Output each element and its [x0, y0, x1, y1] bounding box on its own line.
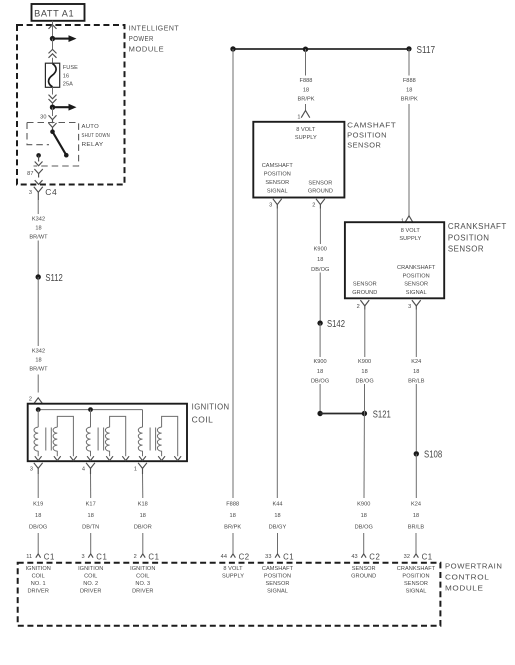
wire junction to fuse connector	[52, 39, 54, 50]
PCM pin 11 C1 - IGNITION COIL NO. 1 DRIVER	[26, 552, 55, 594]
powertrain control module dashed outline	[18, 563, 441, 626]
double chevron connector above fuse	[49, 49, 57, 57]
module label CRANKSHAFT POSITION SENSOR	[448, 221, 507, 254]
relay label AUTO SHUT DOWN RELAY	[82, 124, 111, 148]
fuse value label	[63, 65, 78, 87]
ignition coil one primary winding	[34, 410, 42, 461]
svg-text:GROUND: GROUND	[351, 574, 376, 580]
svg-text:3: 3	[29, 190, 32, 196]
wire label F888 18 BR/PK camshaft	[297, 78, 314, 102]
svg-text:NO. 3: NO. 3	[135, 581, 150, 587]
svg-text:18: 18	[303, 87, 309, 93]
wire label K24 18 BR/LB upper	[408, 359, 425, 384]
splice S108	[414, 450, 443, 461]
svg-text:S108: S108	[424, 450, 443, 461]
connector fork at IPM top edge	[49, 25, 57, 31]
svg-text:CRANKSHAFT: CRANKSHAFT	[397, 265, 436, 271]
svg-text:SUPPLY: SUPPLY	[399, 236, 421, 242]
svg-text:SENSOR: SENSOR	[265, 180, 289, 186]
svg-text:CRANKSHAFT: CRANKSHAFT	[397, 566, 436, 572]
svg-text:SIGNAL: SIGNAL	[267, 589, 288, 595]
crankshaft sensor pin 3	[408, 300, 421, 310]
svg-text:18: 18	[361, 513, 367, 519]
wire label K342 18 BR/WT upper	[29, 216, 48, 240]
svg-text:POSITION: POSITION	[264, 172, 291, 178]
ignition coil two primary winding	[86, 410, 94, 461]
svg-text:SENSOR: SENSOR	[404, 282, 428, 288]
svg-text:18: 18	[317, 257, 323, 263]
svg-text:8 VOLT: 8 VOLT	[223, 566, 243, 572]
svg-text:S142: S142	[327, 319, 345, 330]
wire label K900 18 DB/OG right	[355, 359, 373, 384]
bus junction to camshaft sensor	[303, 47, 308, 52]
ignition coil three secondary winding	[157, 416, 181, 460]
svg-text:3: 3	[30, 467, 33, 473]
wire into fuse	[52, 58, 54, 63]
svg-text:18: 18	[413, 369, 419, 375]
svg-text:18: 18	[88, 513, 94, 519]
svg-text:2: 2	[357, 304, 360, 310]
svg-text:SENSOR: SENSOR	[266, 581, 290, 587]
svg-text:GROUND: GROUND	[308, 189, 333, 195]
svg-text:BR/LB: BR/LB	[408, 378, 425, 384]
svg-text:32: 32	[404, 554, 410, 560]
svg-text:DB/OG: DB/OG	[355, 378, 373, 384]
svg-text:DB/TN: DB/TN	[82, 524, 99, 530]
svg-text:POSITION: POSITION	[402, 574, 429, 580]
module label IGNITION COIL	[192, 401, 230, 424]
svg-text:K900: K900	[314, 247, 327, 253]
svg-text:18: 18	[317, 369, 323, 375]
wire ignition coil driver 1 - K19 18 DB/OG	[37, 474, 39, 553]
svg-text:DB/OR: DB/OR	[134, 524, 152, 530]
svg-text:FUSE: FUSE	[63, 65, 78, 71]
svg-text:BR/LB: BR/LB	[408, 524, 425, 530]
PCM pin 32 C1 - CRANKSHAFT POSITION SENSOR SIGNAL	[397, 552, 436, 594]
svg-text:SUPPLY: SUPPLY	[295, 135, 317, 141]
svg-text:RELAY: RELAY	[82, 142, 104, 148]
svg-text:MODULE: MODULE	[129, 45, 165, 54]
wire S121 to PCM sensor ground - K900 18 DB/OG	[363, 414, 366, 554]
svg-text:BR/WT: BR/WT	[29, 367, 48, 373]
svg-text:SIGNAL: SIGNAL	[406, 290, 427, 296]
ignition coil primary bus	[38, 409, 142, 411]
svg-text:CAMSHAFT: CAMSHAFT	[262, 566, 294, 572]
svg-text:POSITION: POSITION	[264, 574, 291, 580]
junction node at S121 left	[317, 411, 322, 416]
svg-text:2: 2	[134, 554, 137, 560]
wire ignition coil driver 3 - K18 18 DB/OR	[142, 474, 144, 553]
crankshaft position sensor outline	[345, 222, 444, 298]
svg-text:C2: C2	[239, 552, 250, 561]
ignition coil three primary winding	[138, 410, 146, 461]
svg-text:IGNITION: IGNITION	[26, 566, 51, 572]
svg-text:DB/OG: DB/OG	[311, 267, 329, 273]
svg-text:AUTO: AUTO	[82, 124, 100, 130]
svg-text:SENSOR: SENSOR	[352, 566, 376, 572]
svg-text:SENSOR: SENSOR	[404, 581, 428, 587]
ignition coil pin 3	[30, 463, 43, 474]
module label POWERTRAIN CONTROL MODULE	[445, 561, 503, 592]
wire camshaft signal to PCM - K44 18 DB/GY	[276, 209, 278, 554]
svg-text:COIL: COIL	[32, 574, 45, 580]
ignition coil one secondary winding	[53, 416, 77, 460]
coil bus junction 1	[36, 407, 41, 412]
svg-text:8 VOLT: 8 VOLT	[401, 228, 421, 234]
wire label K44 18 DB/GY	[269, 502, 287, 531]
crankshaft sensor pin 1	[401, 216, 413, 225]
wire S112 to ignition coil - K342 18 BR/WT	[37, 277, 39, 393]
svg-text:1: 1	[297, 114, 300, 120]
ignition coil one core	[46, 428, 52, 451]
fuse FUSE 16 25A	[45, 63, 59, 87]
svg-text:C1: C1	[283, 552, 294, 561]
PCM pin 2 C1 - IGNITION COIL NO. 3 DRIVER	[130, 552, 159, 594]
arrow at IPM bottom edge	[35, 180, 43, 184]
svg-text:3: 3	[408, 304, 411, 310]
svg-text:33: 33	[265, 554, 271, 560]
wire BATT A1 to IPM edge	[52, 21, 54, 25]
junction node with feed arrow A	[50, 35, 77, 42]
svg-text:IGNITION: IGNITION	[192, 401, 230, 411]
svg-text:CRANKSHAFT: CRANKSHAFT	[448, 221, 507, 231]
svg-text:K17: K17	[86, 502, 96, 508]
svg-text:SHUT DOWN: SHUT DOWN	[82, 133, 111, 139]
splice S121	[362, 409, 391, 420]
wire to junction B	[52, 103, 54, 107]
ignition coil pin 4	[82, 463, 95, 474]
battery feed terminal BATT A1	[32, 4, 85, 21]
camshaft sensor pin 2	[312, 199, 325, 209]
svg-text:SIGNAL: SIGNAL	[406, 589, 427, 595]
splice S112	[36, 273, 64, 284]
double chevron connector below fuse	[49, 95, 57, 104]
svg-text:IGNITION: IGNITION	[78, 566, 103, 572]
camshaft position sensor outline	[253, 122, 344, 198]
svg-text:CONTROL: CONTROL	[445, 572, 489, 581]
svg-text:SENSOR: SENSOR	[308, 180, 332, 186]
svg-text:DRIVER: DRIVER	[132, 589, 153, 595]
svg-text:44: 44	[221, 554, 227, 560]
wire label K18 18 DB/OR	[134, 502, 152, 531]
svg-text:NO. 2: NO. 2	[83, 581, 98, 587]
camshaft sensor pin 1	[297, 111, 309, 121]
main 8-volt bus wire	[233, 48, 409, 50]
relay terminal 30 connector forks	[49, 115, 57, 130]
svg-text:SUPPLY: SUPPLY	[222, 574, 244, 580]
wire label F888 18 BR/PK crankshaft	[401, 78, 418, 102]
svg-text:BR/PK: BR/PK	[401, 97, 418, 103]
svg-text:2: 2	[312, 202, 315, 208]
wire ignition coil driver 2 - K17 18 DB/TN	[90, 474, 92, 553]
splice S142	[317, 319, 345, 330]
bus corner junction	[230, 46, 235, 51]
wire to relay terminal 30	[52, 107, 54, 116]
svg-text:4: 4	[82, 467, 85, 473]
svg-text:K900: K900	[357, 502, 370, 508]
wire label K900 18 DB/OG upper	[311, 247, 329, 274]
svg-text:87: 87	[27, 171, 33, 177]
svg-text:C1: C1	[44, 552, 55, 561]
wire below fuse	[52, 87, 54, 94]
camshaft sensor pin 3	[269, 199, 282, 209]
crankshaft sensor internal labels	[352, 228, 436, 296]
svg-text:K19: K19	[33, 502, 43, 508]
relay contact arm	[50, 129, 68, 157]
wire C4 to S112 - circuit K342 18 BR/WT	[37, 200, 39, 275]
wire label K17 18 DB/TN	[82, 502, 99, 531]
svg-text:18: 18	[140, 513, 146, 519]
svg-text:DB/OG: DB/OG	[355, 524, 373, 530]
wire to junction	[52, 31, 54, 39]
svg-text:18: 18	[406, 87, 412, 93]
svg-text:GROUND: GROUND	[352, 290, 377, 296]
svg-text:K44: K44	[272, 502, 282, 508]
svg-text:BR/PK: BR/PK	[297, 97, 314, 103]
svg-text:BATT A1: BATT A1	[34, 9, 74, 19]
svg-text:S117: S117	[417, 45, 436, 56]
svg-text:18: 18	[274, 513, 280, 519]
module label CAMSHAFT POSITION SENSOR	[347, 121, 396, 150]
svg-text:NO. 1: NO. 1	[31, 581, 46, 587]
svg-text:K342: K342	[32, 216, 45, 222]
svg-text:S121: S121	[373, 409, 391, 420]
svg-text:C1: C1	[148, 552, 159, 561]
svg-text:8 VOLT: 8 VOLT	[296, 127, 316, 133]
svg-text:30: 30	[40, 115, 46, 121]
crankshaft sensor pin 2	[357, 300, 370, 310]
wire label K19 18 DB/OG	[29, 502, 47, 531]
svg-text:18: 18	[35, 513, 41, 519]
wire label K342 18 BR/WT lower	[29, 348, 48, 372]
svg-text:DB/GY: DB/GY	[269, 524, 287, 530]
svg-text:C4: C4	[45, 187, 57, 197]
svg-text:K24: K24	[411, 359, 421, 365]
svg-text:POWER: POWER	[129, 34, 154, 43]
wire label F888 18 BR/PK at PCM	[224, 502, 241, 531]
ignition coil two secondary winding	[105, 416, 129, 460]
svg-text:3: 3	[82, 554, 85, 560]
svg-text:BR/PK: BR/PK	[224, 524, 241, 530]
svg-text:K900: K900	[313, 359, 326, 365]
ignition coil three core	[150, 428, 156, 451]
wire camshaft ground to S142 - K900 18 DB/OG	[319, 209, 321, 321]
jumper wire to splice S121	[320, 413, 364, 415]
ignition coil pin 2	[29, 397, 42, 404]
svg-text:SENSOR: SENSOR	[347, 141, 381, 150]
svg-text:F888: F888	[300, 78, 313, 84]
junction node with feed arrow B	[50, 104, 77, 111]
camshaft sensor internal labels	[262, 127, 333, 195]
svg-text:43: 43	[351, 554, 357, 560]
svg-text:SENSOR: SENSOR	[448, 244, 484, 254]
svg-text:COIL: COIL	[84, 574, 97, 580]
svg-text:POSITION: POSITION	[403, 273, 430, 279]
svg-text:C1: C1	[422, 552, 433, 561]
svg-text:SIGNAL: SIGNAL	[267, 189, 288, 195]
svg-text:11: 11	[26, 554, 32, 560]
svg-text:18: 18	[35, 357, 41, 363]
relay terminal 87 node	[35, 153, 43, 166]
svg-text:S112: S112	[45, 273, 63, 284]
PCM pin 3 C1 - IGNITION COIL NO. 2 DRIVER	[78, 552, 107, 594]
svg-text:SENSOR: SENSOR	[353, 282, 377, 288]
svg-text:CAMSHAFT: CAMSHAFT	[347, 121, 396, 130]
coil bus junction 2	[88, 407, 93, 412]
wire S142 to S121 junction - K900 18 DB/OG	[319, 323, 321, 413]
svg-text:C1: C1	[96, 552, 107, 561]
wire crankshaft signal - K24 18 BR/LB	[415, 310, 417, 452]
ignition coil outline	[28, 404, 187, 462]
PCM pin 33 C1 - CAMSHAFT POSITION SENSOR SIGNAL	[262, 552, 294, 594]
wire bus to camshaft sensor - F888 18 BR/PK	[305, 49, 307, 110]
wire label K900 18 DB/OG left	[311, 359, 329, 384]
svg-text:C2: C2	[369, 552, 380, 561]
wire S108 to PCM - K24 18 BR/LB	[415, 454, 417, 554]
svg-text:MODULE: MODULE	[445, 583, 484, 592]
crankshaft sensor pin 1 wire - F888 18 BR/PK	[408, 49, 410, 216]
module label INTELLIGENT POWER MODULE	[129, 24, 180, 54]
svg-text:K24: K24	[411, 502, 421, 508]
wire label K900 18 DB/OG at PCM	[355, 502, 373, 531]
svg-text:F888: F888	[226, 502, 239, 508]
ignition coil pin 1	[134, 463, 147, 474]
svg-text:COIL: COIL	[192, 414, 214, 424]
svg-text:18: 18	[413, 513, 419, 519]
svg-text:18: 18	[361, 369, 367, 375]
svg-text:25A: 25A	[63, 82, 73, 88]
svg-text:DRIVER: DRIVER	[80, 589, 101, 595]
PCM pin 44 C2 - 8 VOLT SUPPLY	[221, 552, 250, 579]
svg-text:K18: K18	[138, 502, 148, 508]
svg-text:K342: K342	[32, 348, 45, 354]
relay terminal 87 connector fork	[34, 169, 42, 178]
svg-text:2: 2	[29, 397, 32, 403]
svg-text:3: 3	[269, 202, 272, 208]
PCM pin 43 C2 - SENSOR GROUND	[351, 552, 380, 579]
svg-text:18: 18	[230, 513, 236, 519]
svg-text:16: 16	[63, 73, 69, 79]
svg-text:COIL: COIL	[136, 574, 149, 580]
svg-text:POSITION: POSITION	[347, 131, 387, 140]
svg-text:F888: F888	[403, 78, 416, 84]
intelligent power module dashed outline	[17, 25, 125, 185]
svg-text:POSITION: POSITION	[448, 232, 490, 242]
svg-text:1: 1	[134, 467, 137, 473]
svg-text:INTELLIGENT: INTELLIGENT	[129, 24, 180, 33]
auto shut down relay dashed outline	[27, 123, 79, 167]
splice S117	[406, 45, 435, 56]
ignition coil two core	[98, 428, 104, 451]
svg-text:CAMSHAFT: CAMSHAFT	[262, 163, 294, 169]
connector C4 pin 3	[29, 187, 58, 200]
wire 8-volt supply to PCM - F888 18 BR/PK	[232, 49, 234, 553]
svg-text:IGNITION: IGNITION	[130, 566, 155, 572]
svg-text:POWERTRAIN: POWERTRAIN	[445, 561, 503, 570]
wire crankshaft ground to S121 - K900 18 DB/OG	[364, 310, 366, 414]
svg-text:DRIVER: DRIVER	[27, 589, 48, 595]
wire label K24 18 BR/LB at PCM	[408, 502, 425, 531]
svg-text:DB/OG: DB/OG	[311, 378, 329, 384]
svg-text:18: 18	[35, 225, 41, 231]
svg-text:DB/OG: DB/OG	[29, 524, 47, 530]
svg-text:BR/WT: BR/WT	[29, 235, 48, 241]
svg-text:K900: K900	[358, 359, 371, 365]
